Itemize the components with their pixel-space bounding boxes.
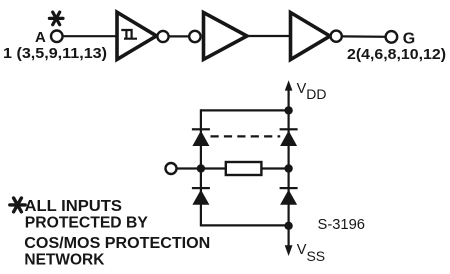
wire bottom rail [201,224,289,226]
svg-text:VSS: VSS [297,242,325,264]
wire U2 to U3 [247,35,291,37]
wire left vertical branch [200,109,202,226]
wire A to inverter U1 [64,35,116,37]
diode D2 input-to-VDD right [280,128,298,146]
svg-text:COS/MOS PROTECTION: COS/MOS PROTECTION [24,235,210,252]
svg-text:ALL INPUTS: ALL INPUTS [25,198,123,215]
VDD supply arrow [285,80,293,111]
wire U3 to output G [342,35,385,38]
svg-text:S-3196: S-3196 [318,217,366,233]
dashed line between D1 and D2 [211,135,281,137]
junction dot left input node [197,164,205,172]
svg-text:VDD: VDD [297,81,327,102]
asterisk marker above input A [49,12,63,25]
asterisk footnote marker [10,198,25,212]
wire resistor to right node [263,167,289,169]
inverter U1 [117,12,157,59]
svg-text:G: G [403,30,415,47]
svg-text:A: A [35,29,46,46]
junction dot at VDD rail [284,106,292,114]
junction dot at VSS rail [284,222,292,230]
inversion bubble at U1 output [157,31,168,42]
VSS supply arrow [285,245,293,256]
svg-text:PROTECTED BY: PROTECTED BY [25,214,148,231]
buffer U3 [291,13,331,60]
wire input terminal to left node [177,167,226,169]
diode D3 VSS-to-input left [192,187,210,205]
node A input terminal [51,31,63,43]
inversion bubble at U3 output [331,31,342,42]
wire U1 to U2 [169,35,190,37]
pulse symbol inside U1 [121,30,137,39]
svg-text:NETWORK: NETWORK [24,252,104,269]
input terminal of protection network [166,163,177,174]
wire right vertical branch [288,110,290,246]
diode D4 VSS-to-input right [280,187,298,205]
resistor R [226,162,262,175]
buffer U2 [204,13,248,60]
wire top rail [201,109,289,111]
svg-text:1 (3,5,9,11,13): 1 (3,5,9,11,13) [3,46,107,62]
svg-text:2(4,6,8,10,12): 2(4,6,8,10,12) [347,47,446,63]
node G output terminal [386,31,398,43]
diode D1 input-to-VDD left [192,128,210,146]
inversion bubble at U2 input [189,31,200,42]
junction dot right node [284,164,292,172]
